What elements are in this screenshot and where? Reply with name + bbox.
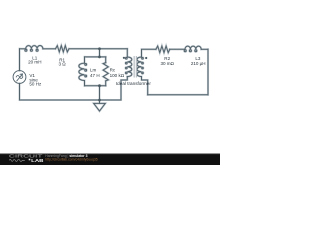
junction node on bracket (98, 56, 101, 59)
svg-text:47 H: 47 H (90, 73, 100, 78)
svg-text:Ideal transformer: Ideal transformer (116, 81, 151, 86)
junction node on top wire (98, 47, 101, 50)
svg-text:210 µH: 210 µH (191, 61, 206, 66)
junction node on bottom bracket (98, 84, 101, 87)
svg-text:30 mΩ: 30 mΩ (160, 61, 174, 66)
footer bar (0, 154, 220, 166)
svg-text:100 kΩ: 100 kΩ (110, 73, 125, 78)
footer credit text (45, 154, 98, 162)
logo circuitlab (9, 154, 44, 163)
wire halo pass (13, 46, 208, 112)
transformer phase dot primary (123, 57, 125, 59)
svg-text:http;//circuitlab.com/c4dmfy6u: http;//circuitlab.com/c4dmfy6uuq35 (45, 158, 98, 162)
transformer phase dot secondary (145, 57, 147, 59)
transformer core bars (134, 56, 137, 78)
junction node on bottom wire (98, 99, 101, 102)
svg-text:3 Ω: 3 Ω (58, 62, 66, 67)
svg-text:20 mH: 20 mH (28, 59, 41, 64)
label Rc (110, 68, 125, 78)
label V1 (29, 73, 42, 86)
svg-text:50 Hz: 50 Hz (29, 82, 42, 87)
label Lm (90, 68, 100, 78)
wire core pass (13, 46, 208, 112)
svg-text:LAB: LAB (31, 158, 44, 163)
